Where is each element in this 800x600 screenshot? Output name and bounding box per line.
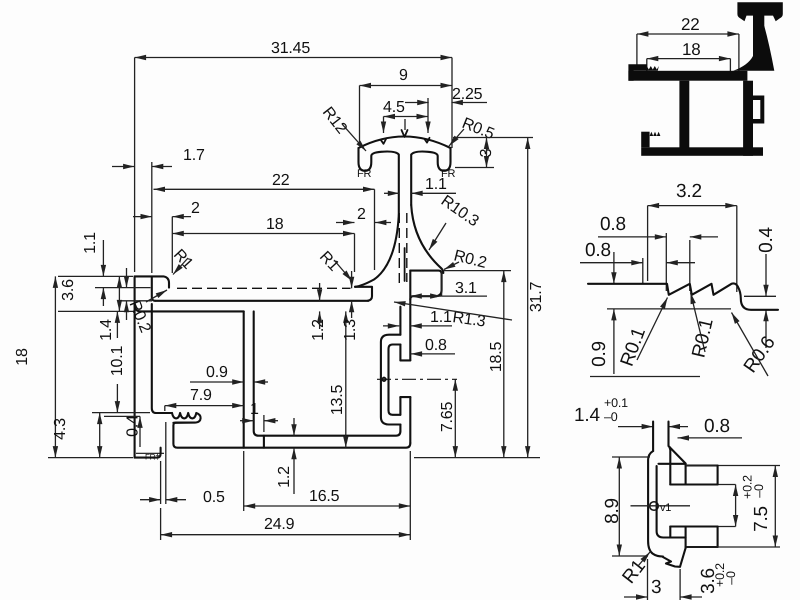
svg-text:3.2: 3.2 [676, 181, 702, 202]
view4: lower lip line [670, 527, 735, 549]
svg-text:R12: R12 [319, 104, 350, 137]
svg-text:1.1: 1.1 [82, 232, 99, 254]
profile: flange underside lower line with wall fillet [135, 305, 244, 311]
profile: cap left end and foot [359, 148, 399, 215]
profile: foot pad bottom [135, 448, 161, 458]
svg-text:16.5: 16.5 [309, 488, 340, 505]
svg-text:FR: FR [357, 168, 372, 180]
dim 3.1 ledge [410, 271, 487, 297]
dim 7.65 [414, 379, 540, 457]
svg-text:0.8: 0.8 [704, 416, 730, 437]
view2 silhouette: lip serration mark [647, 66, 659, 71]
profile: flange top surface left [135, 276, 169, 287]
dim 22 pocket width [154, 172, 375, 270]
svg-text:24.9: 24.9 [264, 516, 295, 533]
view3: radius label R0.1 second [688, 293, 717, 360]
profile: stem left flare R12 [355, 215, 399, 287]
dim 4.5 cap [383, 98, 428, 133]
svg-text:22: 22 [681, 15, 700, 34]
svg-text:R0.2: R0.2 [126, 298, 154, 335]
view4: left wall outer with R1 bottom [648, 451, 686, 567]
view3 serration detail: dim 3.2 [648, 181, 737, 292]
profile: right wall outer edge [409, 271, 411, 443]
view2 silhouette: top flange thick band [628, 71, 747, 81]
dim 0.9 channel wall [190, 364, 268, 382]
svg-text:–0: –0 [724, 571, 738, 585]
profile: screw centerline dash-dot [377, 378, 457, 382]
profile: stem hidden slot dashed lines [399, 213, 407, 285]
profile: cap right end and foot [411, 148, 450, 205]
view2 silhouette: trumpet flare [733, 26, 774, 71]
dim 31.7 [528, 138, 545, 458]
profile: foot hook inner step [173, 423, 410, 448]
profile: screw boss outer [381, 335, 401, 425]
svg-text:R0.5: R0.5 [460, 115, 497, 143]
svg-text:31.45: 31.45 [271, 40, 310, 57]
profile: cap surface notch left [381, 139, 386, 144]
dim 3.6 flange [58, 276, 133, 311]
svg-text:3: 3 [651, 577, 661, 598]
view2 silhouette: right bar [743, 81, 753, 156]
view4: screw center mark [631, 502, 691, 514]
view3: dim 0.8 upper [598, 214, 718, 291]
svg-text:R0.6: R0.6 [740, 333, 780, 377]
profile: pad FR serration mark [136, 453, 164, 462]
radius label R0.5 [449, 115, 497, 146]
svg-text:4.3: 4.3 [52, 418, 69, 440]
radius label R1 left [170, 246, 196, 274]
dim 10.1 [106, 311, 126, 412]
label FR left foot [357, 168, 372, 180]
view2 silhouette: dim 18 [647, 40, 731, 72]
dim 24.9 [161, 508, 411, 540]
profile: screw slot mouth edges [400, 360, 410, 397]
svg-text:–0: –0 [752, 484, 766, 498]
view2 silhouette: dim 22 [637, 15, 739, 72]
profile: right wall inner edge [399, 307, 401, 431]
svg-text:3.1: 3.1 [455, 280, 477, 297]
profile: wall inner edge lower [152, 304, 172, 413]
dim 0.5 pad [140, 422, 225, 506]
view2 silhouette: left lip L-shape [628, 64, 646, 81]
view3: serration root line [607, 308, 731, 310]
svg-text:9: 9 [399, 67, 408, 84]
svg-text:2: 2 [191, 200, 200, 217]
svg-text:1.2: 1.2 [276, 466, 293, 488]
view3: radius label R0.6 [732, 313, 780, 377]
view2 silhouette: screw boss bump [753, 96, 764, 124]
view4: wall stub right edge and branch [669, 422, 686, 485]
view4 foot detail: dim 1.4 with tolerance [574, 396, 688, 427]
radius label R1 right [316, 248, 352, 281]
profile: flange underside upper line [155, 300, 369, 302]
view4: dim 3 [624, 559, 702, 600]
dim 0.4 serration [104, 415, 142, 447]
svg-text:7.9: 7.9 [190, 387, 212, 404]
view3: radius label R0.1 first [617, 298, 668, 370]
svg-text:R1: R1 [619, 556, 650, 588]
svg-text:1.1: 1.1 [430, 309, 452, 326]
svg-text:1.4: 1.4 [98, 319, 115, 341]
dim 3 cap foot height [453, 138, 533, 168]
view4: dim 3.6 with tolerance [698, 485, 738, 594]
profile: stem right flare R10.3 [411, 205, 443, 273]
label FR right foot [441, 168, 456, 180]
svg-text:1.7: 1.7 [183, 147, 205, 164]
view2 silhouette: bottom plate [641, 147, 763, 156]
svg-text:R1: R1 [316, 248, 342, 274]
profile main view: T-slot cap top arc [359, 137, 451, 149]
view4: dim 7.5 with tolerance [741, 466, 776, 548]
svg-text:0.8: 0.8 [600, 214, 626, 235]
dim 0.8 slot [411, 337, 455, 354]
profile: right top ledge [410, 271, 441, 300]
svg-text:22: 22 [272, 172, 290, 189]
dim 1.3 plate [342, 271, 359, 341]
svg-text:18.5: 18.5 [488, 342, 505, 373]
dim 1.1 stem [384, 176, 456, 193]
dim 1.7 wall [112, 147, 205, 273]
dim 16.5 [244, 451, 411, 540]
svg-text:0.9: 0.9 [589, 341, 610, 367]
svg-text:10.1: 10.1 [109, 346, 126, 377]
dim 1.2 bottom plate [276, 418, 294, 494]
svg-text:0.8: 0.8 [425, 337, 447, 354]
profile: cap center vee mark [402, 130, 408, 137]
profile: screw boss inner [389, 345, 401, 415]
svg-text:R0.1: R0.1 [617, 325, 650, 369]
dim 18.5 [443, 271, 511, 458]
radius label R0.2 left lower [126, 290, 167, 335]
svg-text:4.5: 4.5 [383, 99, 405, 116]
profile: wall inner edge upper [152, 277, 155, 301]
dim 7.9 [165, 387, 244, 411]
radius label R1.3 [394, 302, 512, 331]
view4: inner ledge top [659, 463, 686, 465]
dim 2 right ledge [336, 206, 391, 223]
dim 1 channel slot [240, 401, 278, 432]
svg-text:7.65: 7.65 [439, 402, 456, 433]
svg-text:R0.1: R0.1 [688, 317, 717, 360]
profile: foot serration teeth [172, 413, 201, 423]
svg-text:–0: –0 [604, 410, 618, 424]
dim 1.4 [98, 268, 152, 341]
view4: dim 8.9 [602, 457, 650, 556]
profile: screw channel inner wall [254, 311, 401, 435]
profile: screw channel outer wall [243, 311, 245, 447]
svg-text:0.5: 0.5 [203, 489, 225, 506]
view4: upper lip line [670, 466, 735, 485]
svg-text:FR: FR [441, 168, 456, 180]
dim 9 cap width [360, 67, 453, 143]
profile: flange serration root dashed line [177, 287, 351, 289]
dim 1.2 plate [310, 283, 327, 341]
svg-text:7.5: 7.5 [751, 506, 772, 532]
svg-text:FR†: FR† [145, 453, 160, 462]
svg-text:v1: v1 [660, 502, 671, 514]
dim 2 left ledge [133, 200, 200, 273]
svg-text:R1.3: R1.3 [451, 309, 486, 330]
svg-text:0.4: 0.4 [125, 415, 142, 437]
svg-text:+0.1: +0.1 [604, 396, 628, 410]
svg-text:1.3: 1.3 [342, 319, 359, 341]
svg-text:1.2: 1.2 [310, 319, 327, 341]
radius label R12 [319, 104, 366, 151]
profile: cap surface notch right [425, 138, 430, 143]
view4: dim 0.8 [678, 416, 743, 438]
view3: dim 0.9 [589, 252, 700, 377]
view4: bottom edge right [686, 546, 780, 548]
view3: serrated profile edge [588, 283, 778, 309]
dim 1.1 right wall [383, 309, 452, 326]
svg-text:0.4: 0.4 [756, 226, 777, 252]
profile: right ledge shelf under flare [355, 287, 372, 301]
radius label R10.3 [429, 192, 482, 250]
svg-text:R1: R1 [170, 246, 196, 272]
svg-text:1: 1 [250, 401, 259, 418]
view2 silhouette: center web [679, 81, 689, 148]
view4: left wall inner [657, 466, 686, 538]
svg-text:13.5: 13.5 [329, 385, 346, 416]
svg-text:31.7: 31.7 [528, 282, 545, 313]
dim 2.25 [405, 86, 487, 103]
profile: channel slot edge [263, 436, 265, 448]
svg-text:2.25: 2.25 [452, 86, 483, 103]
view4: ledge line right [686, 464, 780, 466]
svg-text:3.6: 3.6 [60, 279, 77, 301]
svg-text:18: 18 [266, 216, 284, 233]
dim 18 pocket [172, 216, 354, 272]
dim 18 left height [14, 276, 133, 457]
svg-text:18: 18 [682, 40, 701, 59]
profile: gasket slot edge under flare [404, 248, 406, 281]
view3: dim 0.4 [744, 226, 777, 348]
profile: left outer wall [134, 276, 136, 457]
radius label R0.2 right [444, 247, 488, 272]
view4: radius label R1 [619, 552, 650, 588]
dim 31.45 top [135, 40, 452, 272]
svg-text:0.8: 0.8 [585, 240, 611, 261]
dim 13.5 [329, 311, 346, 447]
dim 1.1 left step [82, 232, 151, 306]
svg-text:18: 18 [14, 348, 31, 366]
svg-text:1.4: 1.4 [574, 405, 600, 426]
svg-text:R0.2: R0.2 [452, 247, 488, 272]
view2 silhouette: bottom left upturn [641, 132, 660, 148]
view4: wall stub left edge [652, 422, 654, 451]
svg-text:2: 2 [357, 206, 366, 223]
svg-text:0.9: 0.9 [206, 364, 228, 381]
dim 4.3 foot [52, 413, 150, 458]
view2 silhouette: T cap [737, 2, 782, 28]
view3: dim 0.8 lower [580, 240, 695, 283]
